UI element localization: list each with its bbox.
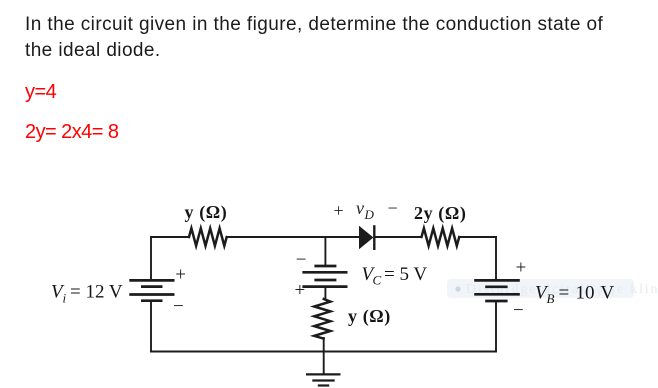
battery VB plates: [474, 280, 520, 301]
wire: left branch upper: [150, 237, 152, 280]
resistor R1 (y ohm, horizontal): [189, 228, 227, 246]
wire: middle branch between battery VC and resistor R3: [324, 287, 326, 300]
svg-text:−: −: [388, 198, 398, 218]
svg-text:i: i: [63, 291, 67, 306]
svg-text:v: v: [356, 198, 364, 218]
svg-text:C: C: [373, 273, 382, 288]
svg-text:+: +: [516, 258, 527, 279]
wire: middle branch upper: [324, 237, 326, 266]
svg-text:+: +: [295, 280, 306, 301]
svg-text:= 12 V: = 12 V: [70, 282, 123, 303]
svg-text:−: −: [173, 296, 184, 317]
svg-text:−: −: [513, 300, 524, 321]
svg-text:−: −: [296, 249, 307, 270]
watermark box behind VB label: [447, 279, 658, 298]
svg-text:= 5 V: = 5 V: [384, 264, 427, 285]
svg-text:D: D: [364, 207, 375, 222]
wire: right branch lower: [495, 301, 497, 352]
label Vi value Vi = 12 V: [51, 282, 123, 306]
svg-text:= 10 V: = 10 V: [559, 282, 615, 303]
wire: top rail middle segment (node to diode): [227, 236, 359, 238]
wire: left branch lower: [150, 301, 152, 352]
wire: top rail left segment: [151, 236, 189, 238]
wire: top rail right of diode: [376, 236, 422, 238]
ground symbol: [306, 374, 341, 385]
wire: right branch upper: [495, 237, 497, 280]
diode D1 (ideal diode): [359, 225, 374, 250]
wire: top rail to top-right corner: [459, 236, 496, 238]
resistor R3 (y ohm, vertical): [314, 299, 330, 339]
svg-text:+: +: [175, 264, 186, 285]
battery VC plates: [302, 266, 347, 287]
svg-text:B: B: [547, 291, 555, 306]
wire: bottom rail: [151, 351, 496, 353]
handwritten answer line 2y= 2x4= 8: [25, 121, 118, 144]
label VB value VB = 10 V: [535, 282, 614, 306]
label diode voltage: + vD -: [334, 198, 398, 222]
handwritten answer line y=4: [25, 81, 56, 104]
resistor R2 (2y ohm, horizontal): [422, 228, 460, 246]
wire: middle branch to ground: [323, 338, 325, 374]
question text: [25, 12, 603, 63]
svg-text:y (Ω): y (Ω): [185, 202, 228, 223]
label VC value VC = 5 V: [362, 264, 428, 288]
svg-text:+: +: [334, 200, 344, 220]
svg-text:y (Ω): y (Ω): [348, 306, 391, 327]
battery Vi plates: [129, 280, 174, 300]
svg-text:2y (Ω): 2y (Ω): [414, 203, 467, 224]
